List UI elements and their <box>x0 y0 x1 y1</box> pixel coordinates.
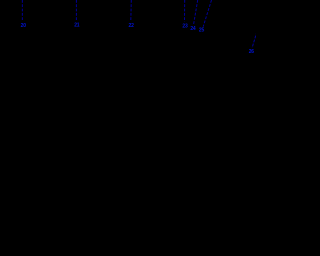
svg-text:22: 22 <box>129 23 135 29</box>
svg-text:24: 24 <box>190 26 196 32</box>
wire edge to node 25 <box>203 0 211 27</box>
wire edge to node 20 <box>21 0 23 21</box>
wire edge to node 22 <box>130 0 133 21</box>
svg-text:23: 23 <box>182 24 188 30</box>
svg-text:25: 25 <box>199 27 205 33</box>
wire edge to node 24 <box>194 0 198 24</box>
svg-text:21: 21 <box>74 23 80 29</box>
svg-text:26: 26 <box>249 49 255 55</box>
wire edge to node 23 <box>184 0 186 22</box>
wire edge to node 21 <box>75 0 77 21</box>
svg-text:20: 20 <box>21 23 27 29</box>
wire edge to node 26 <box>252 32 257 48</box>
